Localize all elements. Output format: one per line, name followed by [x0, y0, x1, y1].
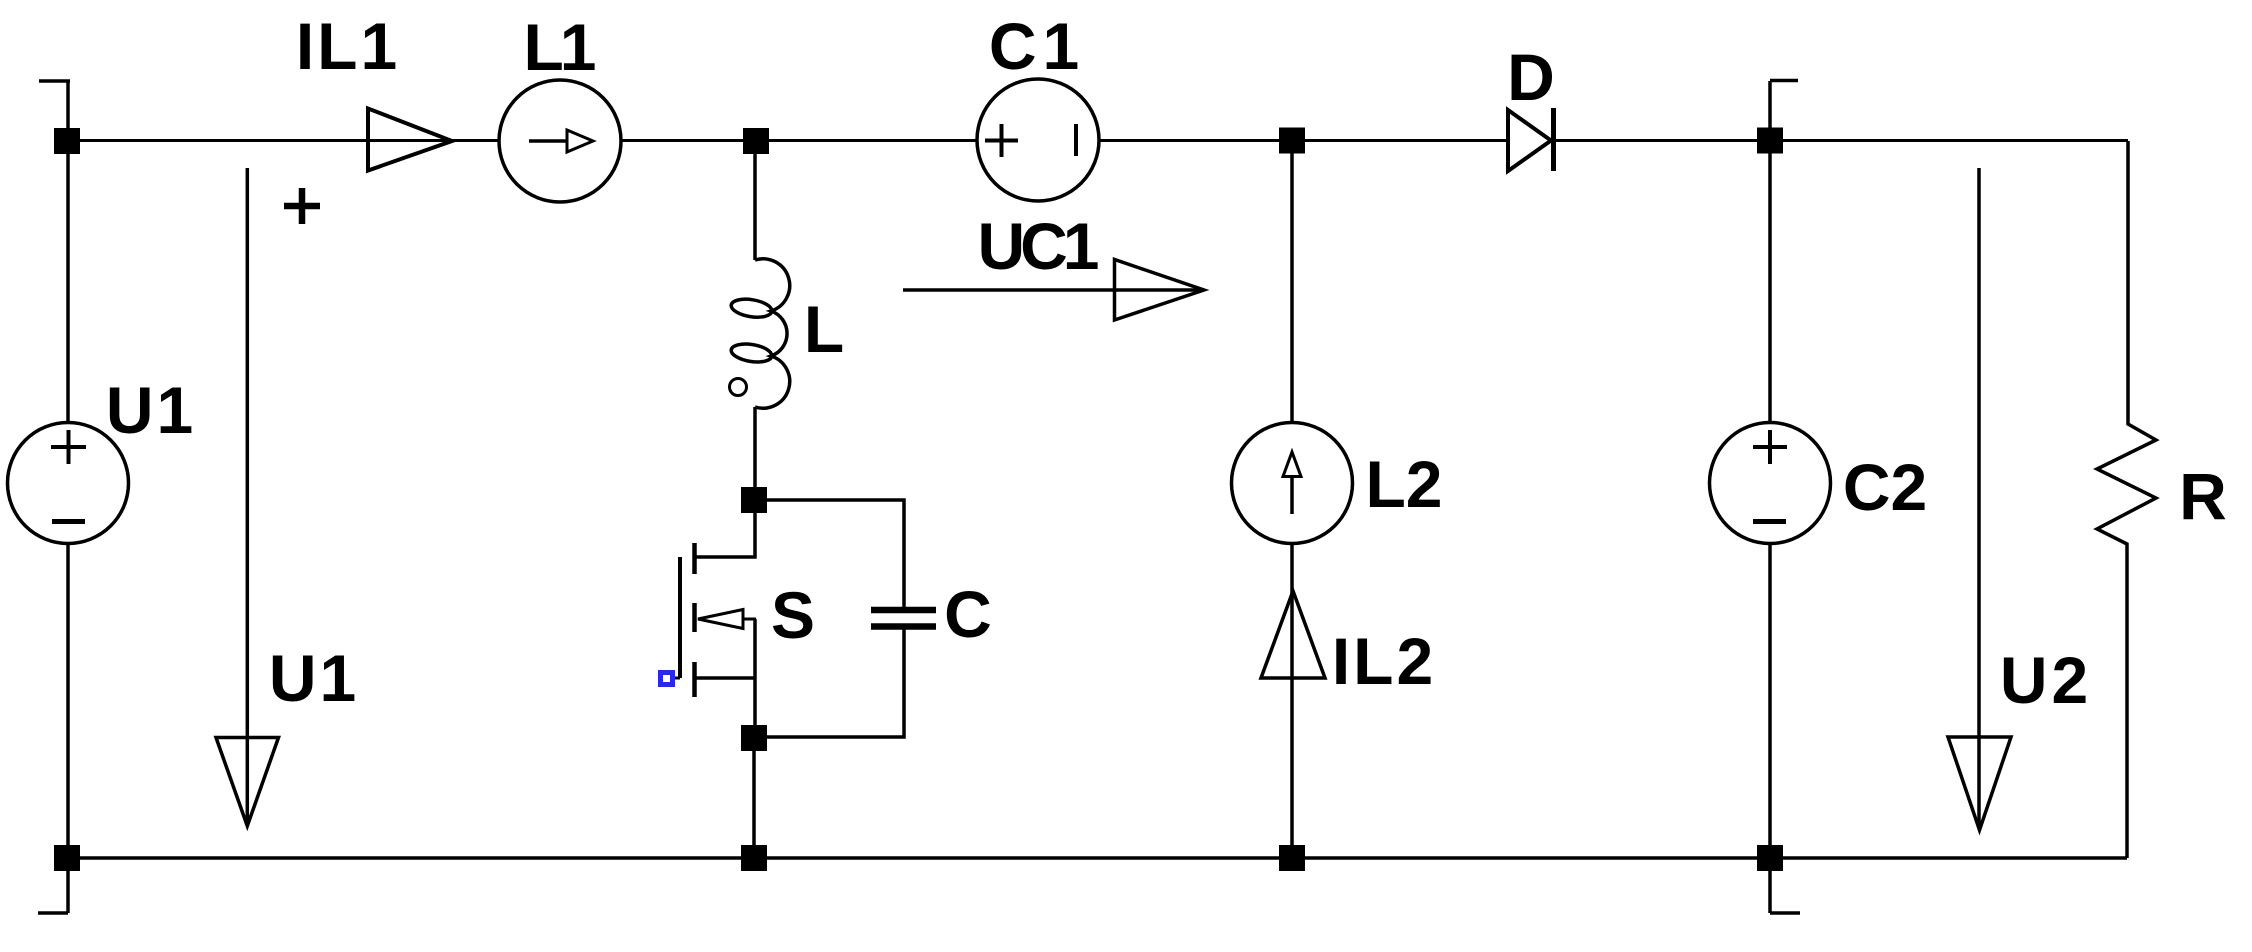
- arrow IL1: [368, 109, 452, 171]
- middle stub: [743, 618, 756, 621]
- inductor L coil: [730, 259, 790, 408]
- node top-right: [1757, 128, 1783, 154]
- wire switch bottom to rail: [752, 738, 756, 858]
- svg-text:S: S: [771, 578, 815, 652]
- wire inductor branch top: [753, 141, 757, 260]
- voltage source C2: [1710, 423, 1831, 544]
- svg-text:L2: L2: [1365, 447, 1442, 521]
- svg-text:U2: U2: [2000, 643, 2092, 717]
- measurement arrow UC1: [903, 288, 1203, 292]
- svg-text:L1: L1: [523, 10, 594, 84]
- gate line: [678, 557, 682, 678]
- node bottom L2: [1279, 845, 1305, 871]
- diode D: [1508, 110, 1551, 171]
- current source L1: [499, 80, 621, 202]
- source vertical: [753, 619, 757, 738]
- bottom contact bar: [692, 662, 697, 697]
- svg-text:C: C: [944, 577, 992, 651]
- node top C1-L2: [1279, 128, 1305, 154]
- wire C2 branch: [1768, 141, 1772, 858]
- wire top rail: [67, 139, 2128, 142]
- svg-text:D: D: [1507, 40, 1555, 114]
- svg-text:C2: C2: [1843, 450, 1927, 524]
- current source L2: [1232, 423, 1353, 544]
- wire inductor to switch node: [753, 407, 757, 500]
- drain lead: [694, 500, 755, 557]
- terminal top-right: [1770, 81, 1798, 142]
- svg-text:R: R: [2179, 459, 2227, 533]
- svg-text:IL1: IL1: [296, 9, 400, 83]
- node bottom-left: [54, 845, 80, 871]
- body arrow: [698, 610, 743, 629]
- wire bottom rail: [67, 856, 2127, 860]
- capacitor C leads: [755, 500, 904, 737]
- gate terminal blue square: [661, 673, 673, 685]
- node switch top: [741, 487, 767, 513]
- measurement arrow U1 plus sign: [284, 188, 320, 224]
- node switch bottom: [741, 725, 767, 751]
- voltage source U1: [8, 423, 129, 544]
- arrow IL2: [1261, 591, 1325, 678]
- transistor Q S (MOSFET): [666, 500, 756, 738]
- node top-mid: [743, 128, 769, 154]
- svg-text:U1: U1: [269, 641, 359, 715]
- drain contact bar: [692, 543, 697, 574]
- terminal bottom-right: [1770, 858, 1800, 913]
- svg-text:U1: U1: [106, 373, 196, 447]
- svg-text:L: L: [804, 292, 844, 366]
- source stub: [695, 676, 757, 680]
- middle contact bar: [692, 603, 697, 632]
- svg-text:UC1: UC1: [977, 209, 1097, 283]
- wire L2 branch: [1290, 141, 1294, 858]
- capacitor C plates: [871, 610, 936, 627]
- measurement arrow U1: [246, 168, 250, 824]
- terminal bottom-left: [38, 858, 68, 913]
- node bottom-right: [1757, 845, 1783, 871]
- voltage source C1: [977, 79, 1099, 201]
- node bottom-mid: [741, 845, 767, 871]
- gate stub: [666, 677, 680, 680]
- terminal top-left: [39, 81, 70, 141]
- svg-text:C1: C1: [989, 9, 1085, 83]
- node top-left: [54, 128, 80, 154]
- wire left branch (U1 source leads): [66, 141, 70, 858]
- resistor R: [2097, 141, 2156, 858]
- measurement arrow U2: [1977, 168, 1981, 827]
- svg-text:IL2: IL2: [1332, 624, 1436, 698]
